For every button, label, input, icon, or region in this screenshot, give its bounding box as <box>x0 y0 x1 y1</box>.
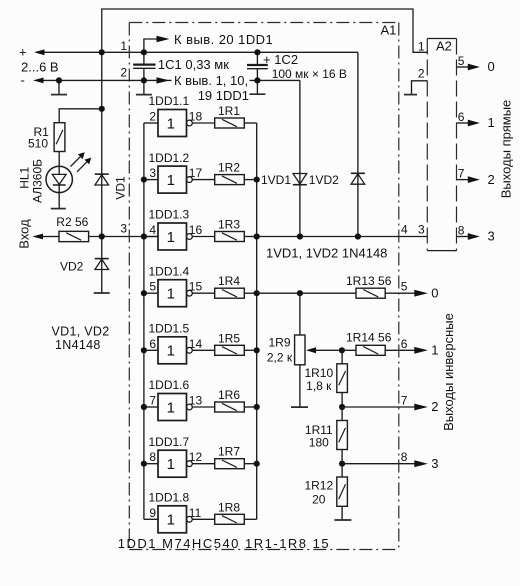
svg-text:0: 0 <box>431 285 438 300</box>
svg-text:1: 1 <box>488 115 495 130</box>
svg-text:А2: А2 <box>436 38 452 53</box>
svg-text:1R2: 1R2 <box>218 161 240 175</box>
svg-text:8: 8 <box>458 224 465 238</box>
svg-text:1: 1 <box>167 456 175 473</box>
svg-text:R2 56: R2 56 <box>56 215 88 229</box>
svg-text:К выв. 20 1DD1: К выв. 20 1DD1 <box>174 32 273 47</box>
svg-text:1: 1 <box>418 40 425 54</box>
svg-text:-: - <box>21 73 25 88</box>
svg-text:4: 4 <box>149 223 156 237</box>
svg-text:13: 13 <box>189 394 203 408</box>
svg-text:3: 3 <box>149 166 156 180</box>
svg-text:1: 1 <box>167 172 175 189</box>
svg-text:1DD1.6: 1DD1.6 <box>149 378 190 392</box>
svg-text:2: 2 <box>120 65 127 79</box>
svg-text:1DD1.7: 1DD1.7 <box>149 435 190 449</box>
svg-text:18: 18 <box>189 110 203 124</box>
svg-text:3: 3 <box>120 222 127 236</box>
svg-text:Вход: Вход <box>17 219 32 249</box>
svg-text:1: 1 <box>167 286 175 303</box>
svg-text:1R13 56: 1R13 56 <box>346 274 392 288</box>
svg-text:4: 4 <box>401 222 408 236</box>
svg-text:12: 12 <box>189 450 203 464</box>
svg-text:2...6 В: 2...6 В <box>21 60 59 75</box>
svg-text:VD2: VD2 <box>60 259 84 273</box>
svg-text:1С1 0,33 мк: 1С1 0,33 мк <box>158 57 229 72</box>
svg-text:1R5: 1R5 <box>218 331 240 345</box>
svg-text:6: 6 <box>401 337 408 351</box>
svg-text:1: 1 <box>167 115 175 132</box>
svg-text:15: 15 <box>189 280 203 294</box>
svg-text:VD1, VD2: VD1, VD2 <box>52 325 110 339</box>
svg-text:1R4: 1R4 <box>218 274 240 288</box>
svg-text:7: 7 <box>149 394 156 408</box>
svg-text:6: 6 <box>458 110 465 124</box>
svg-text:7: 7 <box>458 167 465 181</box>
svg-text:1: 1 <box>167 343 175 360</box>
svg-text:3: 3 <box>431 456 438 471</box>
svg-text:3: 3 <box>418 222 425 236</box>
svg-text:К выв. 1, 10,: К выв. 1, 10, <box>174 73 248 88</box>
svg-text:1DD1.4: 1DD1.4 <box>149 264 190 278</box>
svg-text:Выходы инверсные: Выходы инверсные <box>441 313 456 431</box>
svg-text:1R3: 1R3 <box>218 218 240 232</box>
svg-text:8: 8 <box>401 450 408 464</box>
svg-text:АЛ360Б: АЛ360Б <box>30 159 44 203</box>
svg-text:3: 3 <box>488 229 495 244</box>
svg-text:2: 2 <box>488 172 495 187</box>
svg-text:6: 6 <box>149 337 156 351</box>
svg-text:2: 2 <box>149 110 156 124</box>
svg-text:100 мк × 16 В: 100 мк × 16 В <box>272 67 347 81</box>
svg-text:510: 510 <box>28 137 48 151</box>
svg-text:1DD1.1: 1DD1.1 <box>149 94 190 108</box>
svg-text:2: 2 <box>431 399 438 414</box>
svg-text:0: 0 <box>488 59 495 74</box>
svg-text:+ 1С2: + 1С2 <box>263 52 298 67</box>
svg-text:1R14 56: 1R14 56 <box>346 331 392 345</box>
svg-text:1R12: 1R12 <box>304 478 333 492</box>
svg-text:1DD1 М74НС540 1R1-1R8 15: 1DD1 М74НС540 1R1-1R8 15 <box>118 536 330 551</box>
svg-text:1DD1.8: 1DD1.8 <box>149 491 190 505</box>
svg-text:1R6: 1R6 <box>218 388 240 402</box>
svg-text:1N4148: 1N4148 <box>55 338 101 352</box>
svg-text:5: 5 <box>458 54 465 68</box>
svg-text:VD1: VD1 <box>113 176 127 200</box>
svg-text:1R10: 1R10 <box>304 366 333 380</box>
svg-text:20: 20 <box>312 492 326 506</box>
svg-text:1: 1 <box>167 512 175 529</box>
svg-text:1R9: 1R9 <box>268 336 290 350</box>
svg-text:14: 14 <box>189 337 203 351</box>
svg-text:8: 8 <box>149 450 156 464</box>
svg-text:11: 11 <box>189 506 202 520</box>
svg-text:17: 17 <box>189 166 203 180</box>
svg-text:7: 7 <box>401 394 408 408</box>
svg-text:А1: А1 <box>381 23 397 38</box>
svg-text:1VD2: 1VD2 <box>309 173 339 187</box>
svg-text:5: 5 <box>149 280 156 294</box>
svg-text:1R7: 1R7 <box>218 445 240 459</box>
svg-text:9: 9 <box>149 506 156 520</box>
svg-text:180: 180 <box>309 435 329 449</box>
svg-text:5: 5 <box>401 280 408 294</box>
svg-text:1: 1 <box>167 399 175 416</box>
svg-text:2: 2 <box>418 67 425 81</box>
svg-text:1VD1, 1VD2 1N4148: 1VD1, 1VD2 1N4148 <box>266 246 387 261</box>
svg-text:19 1DD1: 19 1DD1 <box>198 88 249 103</box>
svg-text:1: 1 <box>167 229 175 246</box>
svg-text:1: 1 <box>431 343 438 358</box>
svg-text:1,8 к: 1,8 к <box>306 379 332 393</box>
svg-text:1: 1 <box>120 39 127 53</box>
svg-text:1DD1.5: 1DD1.5 <box>149 322 190 336</box>
svg-text:1R8: 1R8 <box>218 500 240 514</box>
svg-text:1DD1.3: 1DD1.3 <box>149 208 190 222</box>
svg-text:1R1: 1R1 <box>218 104 240 118</box>
svg-text:1VD1: 1VD1 <box>261 173 291 187</box>
svg-text:2,2 к: 2,2 к <box>267 351 293 365</box>
svg-text:16: 16 <box>189 223 203 237</box>
svg-text:Выходы прямые: Выходы прямые <box>498 100 513 199</box>
svg-text:1DD1.2: 1DD1.2 <box>149 151 190 165</box>
svg-text:+: + <box>19 44 27 59</box>
